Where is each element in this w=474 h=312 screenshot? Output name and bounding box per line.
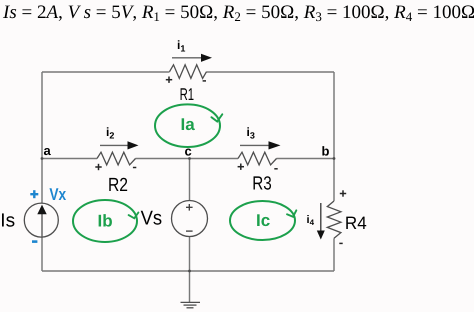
svg-text:i4: i4	[307, 214, 315, 227]
svg-text:Ia: Ia	[181, 115, 196, 134]
wire: Vs down to bottom wire	[189, 237, 191, 272]
junction dot at node b	[333, 157, 336, 160]
current arrow i3	[240, 125, 281, 150]
wire: middle wire R2 to R3 (through node c)	[136, 158, 239, 160]
svg-text:i1: i1	[177, 38, 185, 54]
svg-text:R3: R3	[252, 173, 271, 194]
current arrow i4	[307, 203, 325, 240]
wire: left vertical wire (top of Is to top-left corner)	[41, 72, 43, 203]
svg-text:Is = 2A, V s = 5V, R1 = 50Ω, R: Is = 2A, V s = 5V, R1 = 50Ω, R2 = 50Ω, R…	[2, 2, 474, 24]
junction dot at bottom of Vs branch	[188, 270, 191, 273]
svg-text:Is: Is	[0, 210, 15, 231]
junction dot at node c	[188, 157, 191, 160]
ground	[181, 302, 201, 307]
svg-text:Ib: Ib	[98, 212, 113, 231]
svg-text:Vx: Vx	[49, 185, 66, 204]
current arrow i2	[100, 125, 139, 150]
svg-text:R4: R4	[345, 213, 367, 233]
svg-text:i3: i3	[247, 125, 255, 141]
wire: middle wire a to R2	[42, 158, 97, 160]
wire: middle wire R3 to b	[277, 158, 335, 160]
mesh loop Ib	[73, 200, 138, 242]
wire: left vertical wire below Is	[41, 237, 43, 271]
Vx + label (blue)	[30, 190, 38, 198]
junction dot at node a	[41, 157, 44, 160]
wire: top wire right segment	[207, 71, 335, 73]
svg-text:Vs: Vs	[141, 208, 163, 230]
svg-text:a: a	[44, 143, 52, 158]
svg-text:i2: i2	[106, 125, 114, 141]
wire: node c down to Vs	[189, 159, 191, 201]
svg-text:b: b	[322, 144, 330, 159]
wire: bottom wire	[42, 270, 334, 272]
resistor R3	[238, 152, 278, 194]
wire: right vertical wire below R4	[333, 238, 335, 271]
resistor R1	[166, 65, 207, 104]
current source Is	[0, 203, 58, 237]
svg-text:R2: R2	[108, 175, 128, 196]
wire: top wire left segment	[42, 71, 170, 73]
current arrow i1	[172, 38, 212, 62]
svg-text:c: c	[185, 144, 192, 159]
wire: bottom wire to ground stub	[189, 271, 191, 302]
svg-text:Ic: Ic	[256, 211, 270, 230]
Vx - label (blue)	[32, 240, 37, 243]
svg-text:R1: R1	[180, 85, 195, 104]
mesh loop Ic	[230, 201, 296, 240]
voltage source Vs	[141, 201, 208, 237]
wire: right vertical wire above R4	[333, 72, 335, 201]
resistor R4 (vertical)	[327, 190, 366, 243]
resistor R2	[95, 152, 136, 196]
mesh loop Ia	[155, 104, 222, 147]
